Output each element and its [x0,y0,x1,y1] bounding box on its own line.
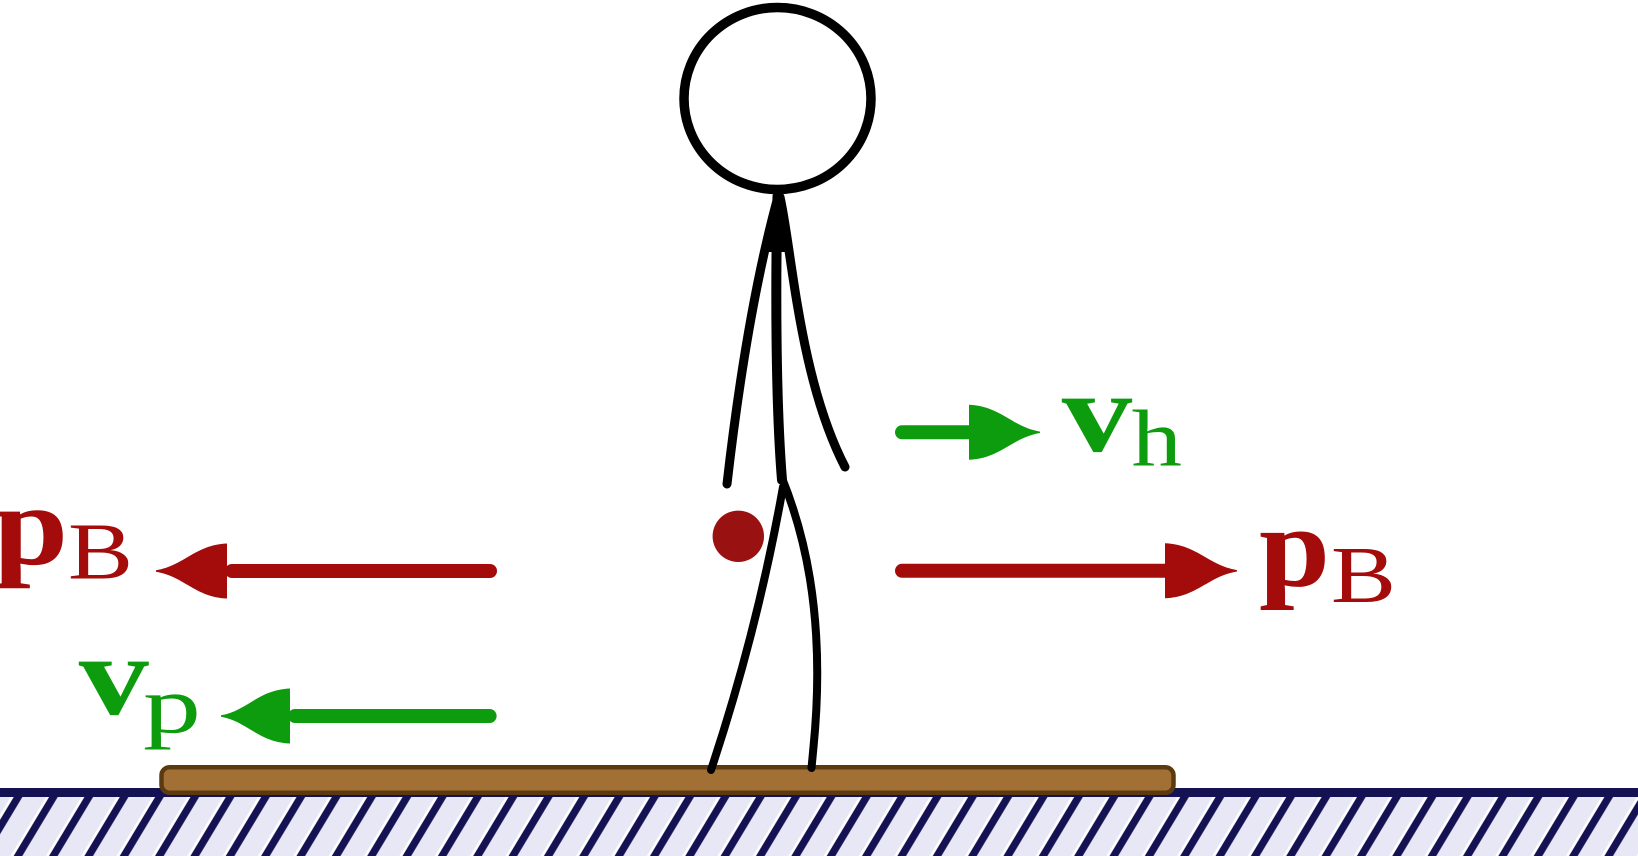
svg-text:p: p [1259,484,1330,611]
svg-text:B: B [68,507,133,597]
svg-text:p: p [143,661,201,751]
stick figure head [684,8,871,190]
svg-text:h: h [1132,394,1182,484]
svg-text:B: B [1331,530,1396,620]
svg-text:p: p [0,462,68,589]
green arrow v_h (right) [902,405,1040,460]
ground top edge [0,788,1638,797]
right arm [780,197,845,467]
plank (board) [162,767,1174,792]
left leg [711,487,783,770]
ground hatched area [0,789,1638,856]
torso [776,196,782,480]
red arrow p_B (left) [156,544,490,599]
right leg [782,478,817,768]
green arrow v_p (left) [221,689,490,744]
neck/shoulder wedge [764,194,786,252]
svg-text:v: v [1062,349,1132,476]
svg-text:v: v [79,612,149,739]
red ball [713,511,764,562]
red arrow p_B (right) [902,543,1237,598]
left arm [727,197,778,484]
